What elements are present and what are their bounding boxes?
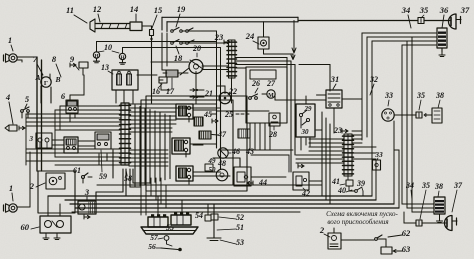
svg-text:34: 34 [401,5,411,15]
svg-text:36: 36 [439,5,449,15]
svg-text:Г: Г [44,80,48,87]
svg-text:52: 52 [236,213,244,222]
svg-text:37: 37 [460,5,470,15]
svg-text:12: 12 [93,4,102,14]
svg-text:вого приспособления: вого приспособления [327,218,388,226]
svg-text:27: 27 [266,79,276,88]
svg-text:15: 15 [154,5,163,15]
svg-text:48: 48 [217,159,226,168]
svg-text:58: 58 [124,174,132,183]
svg-text:45: 45 [203,110,212,119]
svg-text:30: 30 [301,128,310,136]
svg-text:19: 19 [177,4,186,14]
svg-text:32: 32 [369,75,378,84]
svg-text:37: 37 [453,181,463,190]
svg-text:44: 44 [258,178,267,187]
svg-text:1: 1 [8,35,12,45]
svg-text:16: 16 [152,87,160,96]
svg-text:2: 2 [29,181,35,191]
svg-text:35: 35 [421,181,430,190]
svg-text:41: 41 [331,177,340,186]
svg-text:3: 3 [29,135,34,143]
svg-text:B: B [54,75,60,84]
svg-text:17: 17 [166,87,175,96]
svg-text:33: 33 [384,91,393,100]
svg-text:38: 38 [435,91,444,100]
svg-text:34: 34 [405,181,414,190]
svg-text:54: 54 [195,211,203,220]
svg-text:33: 33 [374,150,383,159]
svg-text:10: 10 [104,43,112,52]
svg-text:39: 39 [356,179,365,188]
svg-text:62: 62 [402,228,411,238]
svg-text:47: 47 [217,130,227,139]
svg-text:57: 57 [150,233,158,242]
svg-text:38: 38 [434,182,443,191]
svg-text:35: 35 [416,91,425,100]
svg-text:M: M [268,93,274,99]
svg-text:35: 35 [419,5,429,15]
svg-text:4: 4 [5,92,10,102]
svg-text:A: A [34,73,40,82]
svg-text:14: 14 [130,4,139,14]
svg-text:23: 23 [214,32,224,42]
svg-text:51: 51 [236,223,244,232]
svg-text:53: 53 [236,238,244,247]
svg-text:31: 31 [330,74,340,84]
svg-text:Схема включения пуско-: Схема включения пуско- [326,210,398,218]
svg-text:11: 11 [66,5,74,15]
svg-text:1: 1 [9,183,13,193]
svg-text:63: 63 [402,244,411,254]
svg-text:40: 40 [337,186,346,195]
svg-text:60: 60 [21,222,30,232]
svg-text:20: 20 [192,44,201,53]
svg-text:23: 23 [333,126,342,135]
svg-text:46: 46 [231,147,240,156]
svg-text:50: 50 [209,166,217,174]
svg-text:24: 24 [245,31,255,41]
svg-text:59: 59 [99,172,107,181]
svg-text:21: 21 [204,89,213,98]
svg-text:56: 56 [148,242,156,251]
svg-text:3: 3 [84,187,90,197]
svg-text:2: 2 [319,225,325,235]
svg-text:26: 26 [251,79,260,88]
svg-text:13: 13 [101,63,109,72]
svg-text:28: 28 [268,130,277,139]
